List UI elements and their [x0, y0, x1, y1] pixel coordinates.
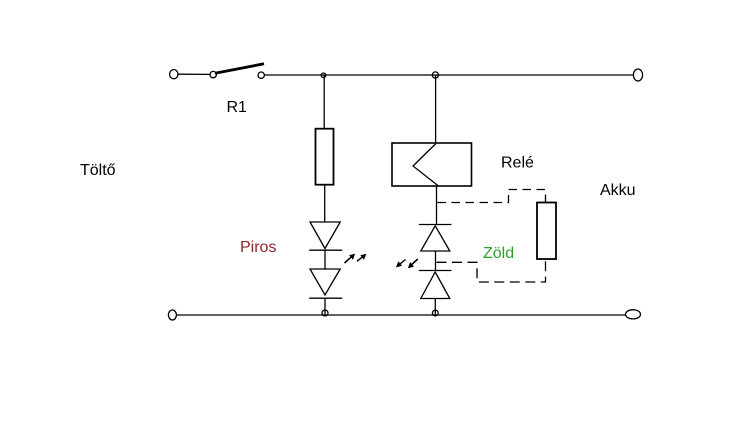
- LED D1 cathode bar: [309, 249, 342, 251]
- dashed wire lower run: [437, 259, 546, 282]
- switch S1 blade: [215, 64, 264, 73]
- wire: [323, 75, 325, 129]
- wire: [436, 186, 438, 225]
- wire: [324, 185, 326, 222]
- node D junction bottom-right branch: [432, 310, 438, 316]
- LED light arrow 2: [357, 254, 366, 261]
- terminal T3 bottom-left: [168, 310, 176, 320]
- LED D2 cathode bar: [309, 297, 342, 299]
- svg-text:Piros: Piros: [240, 239, 276, 256]
- switch S1 pole contact: [210, 71, 216, 77]
- wire: [434, 299, 436, 316]
- LED light arrow 3: [397, 260, 406, 267]
- svg-text:Töltő: Töltő: [80, 162, 116, 179]
- wire: [324, 298, 326, 315]
- terminal T2 top-right: [633, 69, 642, 81]
- wire: [324, 250, 326, 269]
- LED D3 Zöld triangle: [421, 226, 450, 251]
- node B junction: [432, 72, 438, 78]
- wire: [178, 73, 210, 75]
- svg-text:Zöld: Zöld: [483, 245, 514, 262]
- terminal T4 bottom-right: [626, 310, 641, 319]
- resistor R1 body: [316, 129, 334, 185]
- wire: [435, 75, 437, 143]
- dashed wire relay contact upper run: [438, 190, 546, 203]
- wire bottom bus: [177, 314, 626, 316]
- svg-text:R1: R1: [227, 99, 248, 116]
- LED D1 Piros triangle: [310, 222, 340, 249]
- node C junction bottom-left branch: [322, 310, 328, 316]
- svg-text:Relé: Relé: [501, 155, 534, 172]
- node A junction: [321, 73, 326, 78]
- LED D4 cathode bar: [419, 270, 452, 272]
- LED light arrow 1: [345, 254, 355, 263]
- LED D3 cathode bar: [419, 224, 452, 226]
- terminal T1 top-left: [170, 70, 178, 79]
- wire top bus: [265, 74, 634, 76]
- LED D2 Piros triangle: [310, 269, 340, 295]
- relay K1 body: [392, 143, 472, 186]
- relay K1 chevron: [413, 144, 439, 187]
- LED light arrow 4: [408, 259, 417, 268]
- wire: [435, 251, 437, 271]
- battery B1 body: [537, 203, 556, 260]
- LED D4 Zöld triangle: [421, 272, 450, 299]
- svg-text:Akku: Akku: [600, 182, 636, 199]
- switch S1 throw contact: [258, 72, 264, 78]
